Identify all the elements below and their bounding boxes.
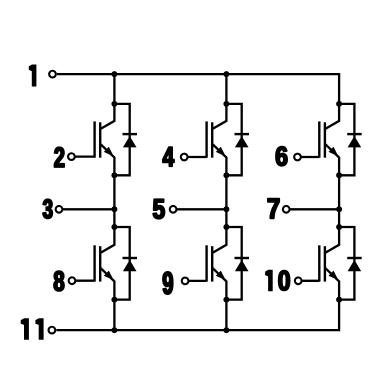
terminal 9 (gate Q5) (182, 278, 189, 285)
junction: top bus / phase 1 leg (111, 71, 117, 77)
junction: Q4 emitter node (111, 297, 117, 303)
pin label 7 (268, 199, 279, 219)
wire: freewheel diode branch D2 (226, 104, 241, 175)
junction: phase 2 midpoint tap (223, 206, 229, 212)
wire: emitter lead of Q6 with arrow (325, 268, 339, 300)
junction: Q4 collector node (111, 224, 117, 230)
wire: collector lead Q5 (212, 227, 226, 253)
junction: Q1 emitter node (111, 172, 117, 178)
pin label 11 (21, 318, 44, 340)
wire: phase 2 output (173, 208, 226, 210)
wire: freewheel diode branch D6 (339, 227, 354, 300)
diode D2 (antiparallel to Q2) (235, 134, 250, 147)
wire: emitter drop phase 2 (225, 300, 227, 331)
pin label 3 (43, 199, 52, 218)
terminal 3 (phase 1 output) (56, 206, 63, 213)
wire: emitter lead of Q1 with arrow (100, 144, 114, 176)
wire: gate lead Q6 (298, 280, 319, 282)
junction: Q3 collector node (336, 101, 342, 107)
wire: freewheel diode branch D5 (226, 227, 241, 300)
pin label 5 (153, 199, 164, 218)
IGBT Q1 (upper, phase 1) (95, 121, 101, 157)
pin label 4 (163, 147, 174, 166)
wire: collector drop phase 1 (113, 74, 115, 104)
wire: emitter lead of Q2 with arrow (212, 144, 226, 176)
wire: gate lead Q2 (184, 156, 206, 158)
terminal 8 (gate Q4) (69, 277, 76, 284)
junction: phase 1 midpoint tap (111, 206, 117, 212)
wire: freewheel diode branch D1 (114, 104, 129, 175)
wire: gate lead Q4 (72, 280, 95, 282)
pin label 8 (54, 271, 64, 291)
wire: bottom bus from terminal 11 (56, 300, 339, 331)
wire: emitter lead of Q4 with arrow (100, 268, 114, 300)
terminal 4 (gate Q2) (181, 154, 188, 161)
wire: phase 3 midpoint (338, 175, 340, 227)
diode D4 (antiparallel to Q4) (123, 258, 138, 271)
junction: bottom bus / phase 1 leg (111, 327, 117, 333)
pin label 9 (163, 272, 173, 294)
terminal 11 (negative DC bus) (49, 327, 56, 334)
diode D3 (antiparallel to Q3) (347, 134, 362, 147)
wire: gate lead Q5 (185, 280, 207, 282)
IGBT Q2 (upper, phase 2) (207, 121, 213, 157)
pin label 10 (265, 270, 290, 292)
IGBT Q6 (lower, phase 3) (319, 245, 325, 281)
IGBT Q5 (lower, phase 2) (207, 245, 213, 281)
wire: emitter lead of Q5 with arrow (212, 268, 226, 300)
terminal 5 (phase 2 output) (170, 206, 177, 213)
junction: Q6 emitter node (336, 297, 342, 303)
pin label 6 (276, 147, 287, 166)
junction: Q1 collector node (111, 101, 117, 107)
terminal 6 (gate Q3) (294, 154, 301, 161)
IGBT Q3 (upper, phase 3) (319, 121, 325, 157)
terminal 7 (phase 3 output) (283, 206, 290, 213)
junction: Q3 emitter node (336, 172, 342, 178)
pin label 2 (55, 147, 65, 167)
wire: collector drop phase 2 (225, 74, 227, 104)
junction: Q2 emitter node (223, 172, 229, 178)
junction: top bus / phase 2 leg (223, 71, 229, 77)
junction: Q5 collector node (223, 224, 229, 230)
wire: gate lead Q1 (71, 155, 94, 157)
junction: Q6 collector node (336, 224, 342, 230)
terminal 2 (gate Q1) (68, 153, 75, 160)
wire: collector lead Q1 (100, 104, 114, 129)
wire: collector lead Q6 (325, 227, 339, 253)
diode D1 (antiparallel to Q1) (123, 134, 138, 147)
wire: phase 1 output (59, 208, 114, 210)
terminal 1 (positive DC bus) (49, 71, 56, 78)
wire: top bus from terminal 1 (57, 74, 339, 104)
wire: freewheel diode branch D4 (114, 227, 129, 300)
junction: Q5 emitter node (223, 297, 229, 303)
wire: emitter lead of Q3 with arrow (325, 144, 339, 176)
wire: collector lead Q2 (212, 104, 226, 129)
junction: phase 3 midpoint tap (336, 206, 342, 212)
IGBT Q4 (lower, phase 1) (95, 245, 101, 281)
wire: collector lead Q4 (100, 227, 114, 253)
terminal 10 (gate Q6) (295, 277, 302, 284)
diode D5 (antiparallel to Q5) (235, 258, 250, 271)
junction: bottom bus / phase 2 leg (223, 327, 229, 333)
pin label 1 (29, 65, 37, 87)
wire: gate lead Q3 (298, 156, 320, 158)
wire: emitter drop phase 1 (113, 300, 115, 331)
wire: phase 2 midpoint (225, 175, 227, 227)
wire: phase 3 output (286, 208, 339, 210)
diode D6 (antiparallel to Q6) (347, 258, 362, 271)
junction: Q2 collector node (223, 101, 229, 107)
wire: collector lead Q3 (325, 104, 339, 129)
wire: freewheel diode branch D3 (339, 104, 354, 175)
wire: phase 1 midpoint (113, 175, 115, 227)
